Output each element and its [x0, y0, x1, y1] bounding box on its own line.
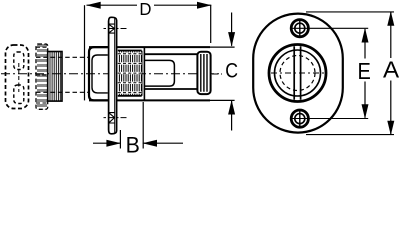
svg-text:D: D: [139, 0, 151, 19]
svg-text:C: C: [225, 59, 238, 83]
svg-text:E: E: [358, 57, 371, 84]
svg-text:A: A: [383, 57, 399, 82]
svg-text:B: B: [126, 132, 140, 154]
